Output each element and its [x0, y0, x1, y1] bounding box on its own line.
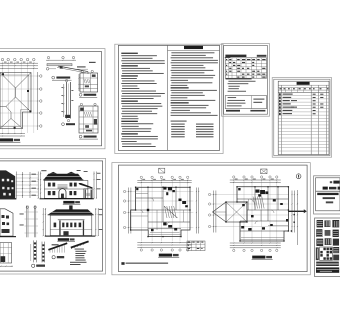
thumbnail blocks mosaic: [316, 220, 339, 273]
title block project row: [323, 197, 335, 199]
rear elevation drawing: [43, 205, 103, 236]
parapet detail drawing: [0, 243, 13, 267]
detail label ② 1:20: [79, 93, 82, 96]
schedule table frame: [278, 81, 329, 154]
table title bar 门窗表: [297, 82, 310, 85]
notes column divider: [167, 45, 169, 150]
sheet E border (elevations sheet): [0, 158, 106, 274]
title block institute row: [317, 193, 338, 195]
attic floor plan drawing: [208, 169, 294, 252]
eave gutter detail drawing: [46, 56, 96, 74]
sheet number symbol ①: [296, 174, 301, 179]
section cut arrow: [289, 209, 307, 213]
sheet B border (design notes sheet): [115, 44, 223, 153]
stair/eave detail drawing ④: [79, 103, 98, 133]
table header rows: [278, 88, 329, 93]
schedule row-number text: [225, 56, 231, 59]
notes text left column: [121, 53, 138, 54]
table column lines: [278, 85, 329, 154]
title block logo row: [330, 181, 332, 183]
title block drawing row: [326, 201, 333, 203]
left plan label 二层平面图 1:100: [159, 254, 172, 257]
schedule notes text: [226, 78, 252, 79]
sheet F border (floor plans sheet): [112, 163, 310, 275]
title band 屋顶设计说明: [168, 50, 220, 52]
rear elevation label 背立面图 1:100: [58, 238, 69, 241]
stair flight detail drawing: [31, 240, 45, 262]
stair section drawing (cut at left edge): [0, 206, 38, 238]
right-side extra dim marks: [291, 190, 298, 245]
table content entries: [279, 93, 323, 115]
plan sheet note text: [121, 262, 124, 265]
sheet C border (roof material schedule): [222, 44, 270, 117]
schedule header text 屋面材料做法表: [225, 55, 246, 57]
second floor plan drawing: [123, 168, 199, 251]
notes right column list rows: [171, 121, 214, 138]
title block company name row 凯置: [323, 187, 328, 190]
key plan thumbnails panel border: [315, 218, 340, 277]
sheet A border (roof plan sheet): [0, 49, 105, 149]
title block border: [314, 176, 340, 214]
sheet D border (door-window schedule): [272, 78, 331, 158]
notes text right column: [171, 51, 214, 54]
title block divider: [316, 190, 340, 192]
detail label ③ 1:20: [62, 123, 65, 126]
front elevation drawing: [38, 170, 101, 199]
coping detail label ⑥: [52, 256, 55, 259]
sloped coping detail: [48, 243, 67, 252]
building section drawing (cut at left edge): [0, 170, 38, 199]
roof plan title text 屋顶平面图: [0, 138, 13, 141]
material schedule table: [225, 58, 266, 78]
detail label ④ 1:20: [79, 135, 82, 138]
vertical wall-section detail ③: [61, 79, 73, 121]
eave detail label ① 1:20: [52, 76, 55, 79]
wall detail drawing ②: [78, 70, 97, 92]
ridge tile detail with notes: [70, 241, 89, 265]
front elevation label 正立面图 1:100: [63, 201, 74, 204]
roof plan drawing: [0, 58, 42, 136]
selection sub-table: [225, 96, 266, 112]
small index table beside plan: [187, 241, 205, 251]
stair detail label ⑤: [32, 264, 35, 267]
table row lines: [278, 96, 329, 151]
right plan label 阁楼平面图 1:100: [252, 256, 265, 259]
